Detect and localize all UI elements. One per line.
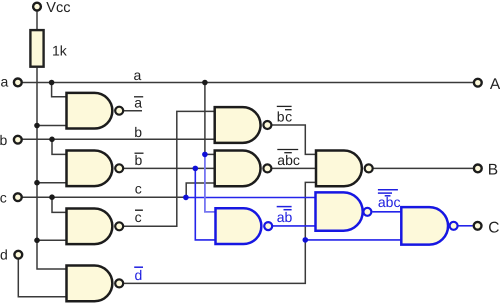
wire a to G6 top <box>205 153 216 155</box>
terminal input d <box>14 251 22 259</box>
gate U2 NAND bbar <box>67 150 124 186</box>
gate U10 NAND C blue <box>401 207 457 245</box>
wire c blue continuation to G9 top <box>186 197 316 199</box>
svg-text:a: a <box>1 74 9 90</box>
svg-text:c: c <box>135 209 142 225</box>
gate U4 NAND dbar <box>67 266 124 302</box>
terminal input b <box>14 136 22 144</box>
wire a branch to G7 top <box>205 154 216 212</box>
label net abbarcbar blue <box>378 190 401 210</box>
terminal input a <box>14 79 22 87</box>
svg-text:A: A <box>490 76 500 93</box>
wire b to G2 top <box>52 139 67 154</box>
gate U5 NAND bcbar <box>215 107 272 143</box>
junction a-G1 <box>49 80 55 86</box>
wire c elbow to G6 bottom <box>186 183 216 197</box>
svg-text:c: c <box>135 181 142 197</box>
svg-text:a: a <box>134 67 142 83</box>
wire c to G3 top <box>52 197 67 212</box>
wire net a horizontal <box>23 82 474 84</box>
svg-text:Vcc: Vcc <box>46 0 70 16</box>
svg-text:1k: 1k <box>52 43 68 59</box>
wire Vcc stem <box>36 11 38 29</box>
label net abbarc <box>277 150 300 168</box>
label net bcbar <box>277 106 293 124</box>
svg-text:c: c <box>0 189 7 205</box>
gate U9 NAND blue <box>316 192 372 230</box>
junction b-G2 <box>49 137 55 143</box>
svg-text:d: d <box>0 247 8 263</box>
svg-text:b: b <box>0 132 8 148</box>
junction a-blue node <box>202 152 208 158</box>
wire cbar net <box>124 111 217 226</box>
wire pullup branch to G2 bottom <box>37 182 67 184</box>
gate U1 NAND abar <box>67 93 124 129</box>
junction a-vertical <box>202 80 208 86</box>
wire pullup vertical to G4 top <box>37 68 67 270</box>
svg-text:abc: abc <box>378 194 401 210</box>
svg-text:bc: bc <box>277 109 293 125</box>
resistor R1 1k <box>30 30 43 67</box>
terminal output B <box>474 165 482 173</box>
wire C output <box>459 225 473 227</box>
terminal input c <box>14 193 22 201</box>
wire pullup branch to G1 bottom <box>37 125 67 127</box>
svg-text:abc: abc <box>277 152 300 168</box>
terminal output C <box>474 222 482 230</box>
junction pullup-G2 <box>34 180 40 186</box>
wire a to G1 top <box>52 83 67 97</box>
junction c-blue node <box>183 195 189 201</box>
svg-text:ab: ab <box>277 209 293 225</box>
svg-text:b: b <box>134 124 142 140</box>
wire net c horizontal black <box>23 196 186 198</box>
wire net b horizontal <box>23 138 217 140</box>
wire abbar output to G9 bottom <box>272 225 316 227</box>
wire bbar net <box>124 167 217 169</box>
svg-text:C: C <box>488 219 499 236</box>
junction bbar-blue node <box>193 166 199 172</box>
label net cbar <box>135 209 143 225</box>
wire a vertical to node <box>204 83 206 155</box>
wire abar stub <box>124 110 143 112</box>
label net abar <box>134 94 143 110</box>
junction c-G3 <box>49 194 55 200</box>
wire pullup branch to G3 bottom <box>37 239 67 241</box>
wire G9 output to G10 top <box>373 211 403 213</box>
wire dbar blue branch to G10 bottom <box>305 239 402 241</box>
terminal output A <box>474 79 482 87</box>
wire B output <box>373 167 473 169</box>
wire net d stem to G4 bottom <box>18 259 67 297</box>
svg-text:b: b <box>135 152 143 168</box>
gate U6 NAND abbarc <box>215 151 272 187</box>
gate U3 NAND cbar <box>67 208 124 244</box>
gate U7 NAND abbar blue <box>216 208 273 244</box>
svg-text:d: d <box>135 267 143 283</box>
junction pullup-G3 <box>34 238 40 244</box>
wire bbar branch to G7 bottom <box>195 168 216 240</box>
terminal Vcc <box>33 3 41 11</box>
junction dbar-blue node <box>303 237 309 243</box>
wire abbarc net <box>272 167 317 169</box>
wire bcbar net <box>272 125 317 154</box>
label net abbar blue <box>277 207 293 226</box>
junction pullup-G1 <box>34 123 40 129</box>
gate U8 NAND B <box>316 151 373 187</box>
label net bbar <box>135 152 144 168</box>
wire dbar net <box>124 182 317 283</box>
svg-text:B: B <box>488 162 498 179</box>
label net dbar blue <box>134 267 143 283</box>
